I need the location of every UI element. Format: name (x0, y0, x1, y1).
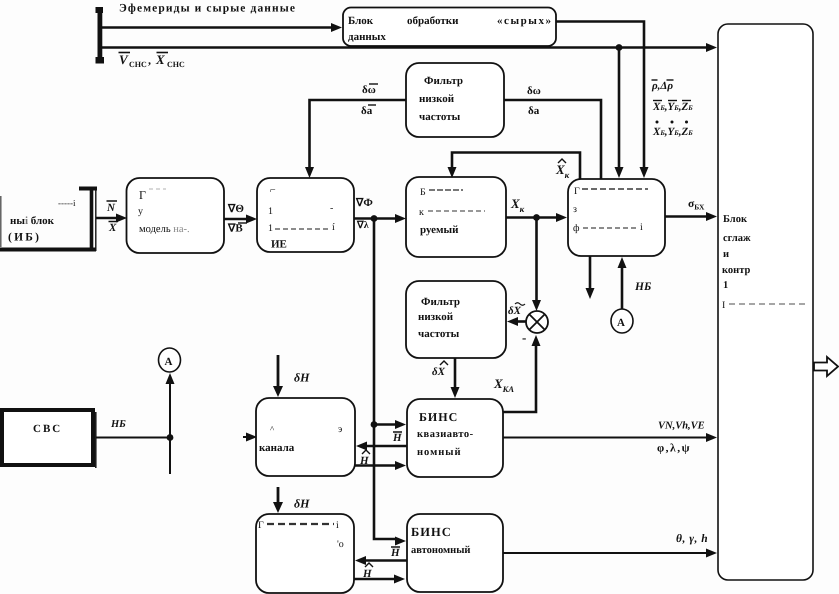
svg-text:V: V (119, 52, 129, 67)
node: junction on X_k wire (533, 214, 540, 221)
svg-text:X: X (155, 52, 165, 67)
block: Блок обработки «сырых» данных (343, 8, 556, 47)
node circle A2 (159, 348, 181, 372)
svg-text:НБ: НБ (110, 419, 126, 430)
svg-text:δН: δН (294, 371, 310, 385)
bus bracket ] at top-left (96, 7, 105, 64)
node: junction on СВС wire (167, 434, 174, 441)
svg-text:з: з (573, 204, 577, 215)
wire: ИБ output into block2 (96, 217, 117, 220)
svg-text:ф: ф (573, 223, 580, 234)
svg-text:руемый: руемый (420, 224, 459, 236)
svg-text:XБ,YБ,ZБ: XБ,YБ,ZБ (652, 126, 693, 138)
svg-text:XБ,YБ,ZБ: XБ,YБ,ZБ (652, 101, 693, 113)
svg-text:сглаж: сглаж (723, 233, 751, 244)
wire: sigma output of Kalman block into big right block (665, 215, 706, 218)
block: Фильтр низкой частоты (second) (406, 281, 506, 358)
svg-text:'о: 'о (337, 539, 344, 550)
wire: X_KA feedback from BINS right side up into comparator (503, 346, 536, 412)
label Н hat (lower) (362, 563, 373, 580)
hollow output arrow on right edge of big block (814, 357, 838, 376)
svg-text:обработки: обработки (407, 15, 459, 27)
svg-text:1: 1 (723, 280, 728, 291)
wire: down stub output from Kalman block bottom (589, 256, 592, 288)
svg-text:э: э (338, 424, 342, 435)
block: СВС (2, 410, 96, 468)
svg-text:δX: δX (432, 366, 446, 378)
wire: delta X from X_k junction down into comparator (535, 218, 538, 301)
svg-text:А: А (617, 317, 625, 329)
wire: quasi BINS output VN Vh VE to big block (503, 437, 706, 439)
label delta X tilde (508, 303, 525, 317)
svg-text:БИНС: БИНС (419, 410, 458, 424)
node: junction on bus line 2 (616, 44, 623, 51)
svg-text:СНС: СНС (129, 60, 147, 69)
svg-text:δН: δН (294, 497, 310, 511)
wire: delta H input into барометрический (277, 487, 280, 502)
svg-text:низкой: низкой (418, 311, 454, 323)
wire: stub arrow into канала left (243, 436, 246, 438)
svg-text:і: і (640, 222, 643, 233)
wire: branch into quasi-autonomous BINS (374, 423, 395, 426)
wire: filter1 left, down into block3 top (310, 100, 407, 167)
svg-text:частоты: частоты (419, 111, 461, 123)
block: block3 (faded text, ИЕ) (257, 178, 354, 252)
wire: vertical up into circle A2 (169, 384, 171, 474)
svg-text:∇B: ∇B (227, 223, 243, 235)
svg-text:А: А (165, 356, 173, 368)
svg-text:∇λ: ∇λ (356, 220, 369, 231)
svg-text:низкой: низкой (419, 93, 455, 105)
svg-text:автономный: автономный (411, 545, 470, 556)
svg-text:-----і: -----і (58, 198, 76, 208)
svg-text:Н: Н (390, 547, 400, 559)
svg-text:ИЕ: ИЕ (271, 239, 287, 251)
block: big right block (Блок сглаживания и контроля) (718, 24, 813, 580)
svg-text:Н: Н (392, 432, 402, 444)
svg-text:у: у (138, 206, 143, 217)
svg-text:номный: номный (417, 447, 462, 458)
svg-text:θ, γ, h: θ, γ, h (676, 533, 708, 545)
svg-text:Блок: Блок (348, 15, 374, 27)
labels delta omega / delta a (left of filter1) (361, 84, 378, 117)
label Н bar (lower) (390, 547, 400, 559)
labels N bar / X bar (106, 201, 118, 234)
wire: Н hat from канала to BINS (rightwards) (355, 464, 395, 467)
label Н hat (upper) (359, 450, 370, 467)
wire: Н bar from BINS to канала (leftwards) (367, 445, 407, 448)
svg-text:Б: Б (420, 187, 426, 198)
svg-text:∇Θ: ∇Θ (227, 203, 244, 215)
wire: delta H input into канала (277, 355, 280, 386)
block: inertial unit (ИБ), partially visible (0, 187, 97, 251)
wire: X_k output of block4 into Kalman block (506, 216, 556, 219)
svg-text:δω: δω (527, 85, 541, 97)
wire: bus line 1 to processing block (102, 26, 332, 28)
svg-text:Эфемериды и сырые данные: Эфемериды и сырые данные (119, 3, 295, 15)
block: Фильтр низкой частоты (top) (406, 63, 504, 137)
svg-text:ρ,Δρ: ρ,Δρ (651, 80, 673, 92)
svg-text:1: 1 (268, 223, 273, 234)
svg-text:контр: контр (722, 265, 750, 276)
svg-text:данных: данных (348, 31, 386, 43)
svg-text:Г: Г (139, 188, 146, 202)
svg-text:к: к (419, 207, 424, 218)
labels nabla Theta / nabla B (227, 203, 247, 235)
svg-text:и: и (723, 249, 729, 260)
block: канала (faded first line) (256, 398, 355, 476)
svg-text:БИНС: БИНС (411, 525, 452, 539)
svg-text:δа: δа (361, 105, 373, 117)
svg-text:⌐: ⌐ (270, 185, 276, 196)
wire: СВС output to vertical (96, 437, 170, 439)
wire: processing block output, right then down into Kalman block (556, 22, 644, 168)
wire: filter2 output down into quasi-autonomous BINS (454, 358, 457, 387)
svg-text:δX: δX (508, 305, 522, 317)
label delta X hat (432, 361, 448, 378)
svg-text:φ,λ,ψ: φ,λ,ψ (657, 443, 691, 455)
node: junction on long vertical (371, 421, 378, 428)
svg-text:∇Ф: ∇Ф (355, 197, 373, 209)
block: Kalman estimation block (faded text) (568, 179, 665, 256)
svg-text:1: 1 (268, 206, 273, 217)
block: model block (faded text) (127, 178, 225, 253)
label Н bar (upper) (392, 432, 402, 444)
block: БИНС квазиавтономный (407, 399, 503, 477)
wire: X_k hat feedback from Kalman top into block4 top (452, 153, 580, 180)
node: junction on block3-block4 wire (371, 215, 378, 222)
svg-text:СВС: СВС (33, 423, 62, 435)
svg-text:δа: δа (528, 105, 540, 117)
labels delta omega / delta a (right of filter1) (527, 85, 541, 117)
wire: block3 to block4 (354, 217, 395, 220)
wire: filter1 right from Kalman block top (504, 100, 601, 179)
svg-text:СНС: СНС (167, 60, 185, 69)
wire: Н bar from autonomous BINS to барометрический (366, 559, 407, 562)
svg-text:-: - (522, 330, 526, 345)
wire: block2 to block3 (224, 218, 246, 221)
svg-text:-: - (330, 203, 333, 214)
svg-text:,: , (148, 53, 151, 67)
wire: vertical drop from bus line 2 into Kalman block (618, 48, 621, 168)
svg-text:квазиавто-: квазиавто- (417, 429, 474, 440)
label X_k hat (555, 159, 570, 180)
block: барометрический (faded) (256, 514, 354, 593)
svg-text:δω: δω (362, 84, 376, 96)
wire: comparator output into filter2 (518, 320, 526, 323)
block: БИНС автономный (407, 514, 503, 592)
svg-text:І: І (722, 300, 725, 311)
svg-text:ныі блок: ныі блок (10, 215, 55, 227)
labels: rho, XYZ, dXdYdZ (651, 80, 693, 138)
svg-text:канала: канала (259, 442, 295, 454)
svg-text:X: X (108, 222, 117, 234)
svg-text:VN,Vh,VE: VN,Vh,VE (658, 421, 705, 432)
svg-text:Г: Г (574, 186, 580, 197)
svg-text:модель на-.: модель на-. (139, 224, 190, 235)
label: V снс, X снс (119, 52, 186, 69)
svg-text:НБ: НБ (634, 281, 651, 293)
svg-text:частоты: частоты (418, 328, 460, 340)
wire: Н hat from барометрический to autonomous BINS (354, 578, 394, 581)
block: block4 корректируемый (406, 177, 506, 257)
svg-text:í: í (332, 222, 335, 233)
svg-text:Фильтр: Фильтр (421, 296, 460, 308)
svg-text:«сырых»: «сырых» (497, 15, 551, 27)
wire: from circle A1 up into Kalman block bottom (621, 268, 624, 309)
svg-text:Фильтр: Фильтр (424, 75, 463, 87)
svg-text:Н: Н (359, 455, 369, 467)
svg-text:і: і (336, 520, 339, 531)
wire: bus line 2 (V,X СНС) to big right block (102, 46, 706, 48)
node circle A1 (611, 309, 633, 333)
labels nabla Ф / nabla lambda (355, 197, 373, 231)
svg-text:Блок: Блок (723, 214, 748, 225)
svg-text:N: N (106, 202, 116, 214)
svg-text:Н: Н (362, 568, 372, 580)
svg-text:Г: Г (258, 520, 264, 531)
comparator circle with X (526, 311, 548, 333)
wire: autonomous BINS output to big block (503, 552, 706, 554)
wire: long vertical from junction down to autonomous BINS (374, 219, 395, 540)
